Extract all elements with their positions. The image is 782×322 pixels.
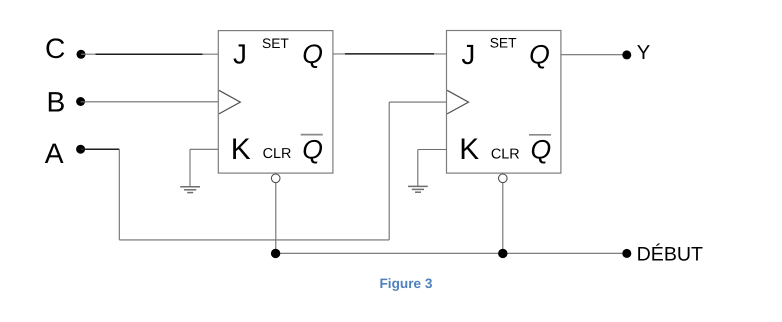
CLR inversion bubble (U1) bbox=[271, 174, 280, 183]
junction dot J1 on DEBUT net bbox=[271, 249, 280, 258]
svg-text:J: J bbox=[233, 39, 247, 70]
wire CLR stem of U1 bbox=[275, 183, 277, 254]
wire A riser to clock of U2 bbox=[388, 102, 390, 240]
svg-text:K: K bbox=[231, 133, 251, 166]
svg-text:DÉBUT: DÉBUT bbox=[637, 244, 703, 266]
svg-text:CLR: CLR bbox=[263, 146, 292, 162]
wire CLR stem of U2 bbox=[502, 183, 504, 254]
svg-text:CLR: CLR bbox=[491, 146, 520, 162]
CLR inversion bubble (U2) bbox=[499, 174, 508, 183]
clock edge-trigger triangle (U1) bbox=[219, 90, 240, 114]
svg-text:A: A bbox=[45, 137, 64, 169]
wire A bottom run bbox=[119, 239, 389, 241]
flip-flop U1 body bbox=[218, 31, 333, 174]
clock edge-trigger triangle (U2) bbox=[447, 90, 468, 114]
wire K input of U2 to ground bbox=[418, 149, 447, 151]
node C terminal dot bbox=[77, 50, 86, 59]
wire A into clock input of U2 bbox=[389, 101, 446, 103]
pin label Q-bar (U1) bbox=[301, 134, 323, 164]
svg-text:Q: Q bbox=[531, 135, 552, 165]
ground symbol G2 bbox=[408, 150, 428, 193]
svg-text:K: K bbox=[459, 133, 479, 166]
wire A horizontal segment bbox=[81, 148, 120, 150]
svg-text:B: B bbox=[47, 85, 66, 117]
wire Q output of U1 to J input of U2 bbox=[333, 53, 447, 55]
node DEBUT terminal dot bbox=[622, 249, 631, 258]
svg-text:Q: Q bbox=[302, 134, 323, 164]
svg-text:Q: Q bbox=[529, 39, 550, 69]
junction dot J2 on DEBUT net bbox=[498, 249, 507, 258]
wire B to clock input of U1 bbox=[81, 101, 219, 103]
svg-text:Figure 3: Figure 3 bbox=[380, 276, 433, 291]
wire K input of U1 to ground bbox=[190, 148, 218, 150]
wire A vertical drop bbox=[118, 149, 120, 240]
ground symbol G1 bbox=[180, 149, 200, 192]
wire C to J input of U1 bbox=[81, 53, 218, 55]
node A terminal dot bbox=[76, 145, 85, 154]
svg-text:SET: SET bbox=[490, 35, 517, 50]
svg-text:SET: SET bbox=[262, 36, 289, 51]
flip-flop U2 body bbox=[447, 31, 561, 174]
svg-text:C: C bbox=[45, 32, 65, 64]
pin label Q-bar (U2) bbox=[529, 135, 551, 165]
node Y terminal dot bbox=[622, 50, 631, 59]
wire Q output of U2 to node Y bbox=[561, 54, 627, 56]
wire DEBUT net bottom run bbox=[276, 252, 627, 254]
node B terminal dot bbox=[76, 97, 85, 106]
svg-text:J: J bbox=[461, 39, 475, 70]
svg-text:Y: Y bbox=[637, 42, 651, 64]
svg-text:Q: Q bbox=[302, 39, 323, 69]
